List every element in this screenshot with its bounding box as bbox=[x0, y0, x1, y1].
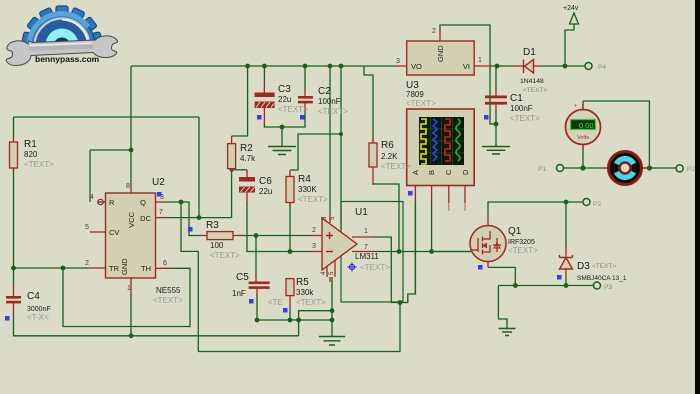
svg-text:R1: R1 bbox=[24, 139, 37, 150]
svg-text:<TEXT>: <TEXT> bbox=[360, 263, 390, 272]
svg-text:Q1: Q1 bbox=[508, 226, 522, 237]
svg-text:1N4148: 1N4148 bbox=[520, 78, 544, 85]
svg-text:0.00: 0.00 bbox=[579, 121, 594, 130]
svg-text:R6: R6 bbox=[381, 140, 394, 151]
svg-text:1: 1 bbox=[127, 285, 131, 292]
svg-text:7: 7 bbox=[364, 244, 368, 251]
svg-text:R: R bbox=[109, 198, 115, 207]
svg-text:8: 8 bbox=[126, 183, 130, 190]
svg-text:100nF: 100nF bbox=[510, 104, 533, 113]
svg-text:SMBJ40CA 13_1: SMBJ40CA 13_1 bbox=[577, 275, 627, 282]
svg-text:<TEXT>: <TEXT> bbox=[153, 296, 183, 305]
svg-text:820: 820 bbox=[24, 150, 38, 159]
svg-text:C6: C6 bbox=[259, 176, 272, 187]
svg-text:Volts: Volts bbox=[577, 135, 589, 141]
svg-text:<TEXT>: <TEXT> bbox=[381, 162, 411, 171]
svg-text:<TEXT>: <TEXT> bbox=[406, 99, 436, 108]
svg-text:<TEXT>: <TEXT> bbox=[210, 251, 240, 260]
svg-text:R3: R3 bbox=[206, 220, 219, 231]
svg-text:22u: 22u bbox=[259, 187, 272, 196]
svg-text:<TEXT>: <TEXT> bbox=[318, 107, 348, 116]
svg-text:C3: C3 bbox=[278, 84, 291, 95]
svg-text:2.2K: 2.2K bbox=[381, 152, 398, 161]
svg-text:<TEXT>: <TEXT> bbox=[298, 195, 328, 204]
svg-text:R2: R2 bbox=[240, 143, 253, 154]
svg-text:VO: VO bbox=[411, 62, 422, 71]
svg-text:7: 7 bbox=[159, 209, 163, 216]
svg-text:5: 5 bbox=[85, 224, 89, 231]
svg-text:<TEXT>: <TEXT> bbox=[24, 160, 54, 169]
svg-text:LM311: LM311 bbox=[355, 252, 379, 261]
svg-text:<TE: <TE bbox=[268, 298, 283, 307]
svg-text:C1: C1 bbox=[510, 93, 523, 104]
svg-text:bennypass.com: bennypass.com bbox=[35, 54, 100, 64]
svg-text:NE555: NE555 bbox=[156, 286, 181, 295]
svg-text:C: C bbox=[444, 169, 453, 175]
svg-text:DC: DC bbox=[140, 214, 151, 223]
svg-text:<TEXT>: <TEXT> bbox=[510, 114, 540, 123]
svg-text:U2: U2 bbox=[152, 177, 165, 188]
svg-text:P2: P2 bbox=[687, 166, 695, 173]
svg-text:D3: D3 bbox=[577, 261, 590, 272]
svg-text:P2: P2 bbox=[593, 201, 601, 208]
svg-text:B: B bbox=[427, 170, 436, 175]
svg-text:330K: 330K bbox=[298, 185, 317, 194]
svg-text:100nF: 100nF bbox=[318, 97, 341, 106]
svg-text:CV: CV bbox=[109, 228, 119, 237]
svg-text:P1: P1 bbox=[538, 166, 546, 173]
svg-text:D1: D1 bbox=[523, 47, 536, 58]
svg-text:VI: VI bbox=[463, 62, 470, 71]
svg-text:3: 3 bbox=[312, 243, 316, 250]
svg-text:R4: R4 bbox=[298, 174, 311, 185]
svg-text:<TEXT>: <TEXT> bbox=[278, 105, 308, 114]
svg-text:22u: 22u bbox=[278, 95, 291, 104]
svg-text:4: 4 bbox=[90, 194, 94, 201]
svg-text:3: 3 bbox=[396, 58, 400, 65]
svg-text:<T-X<: <T-X< bbox=[27, 313, 49, 322]
svg-text:6: 6 bbox=[163, 260, 167, 267]
svg-text:U1: U1 bbox=[355, 207, 368, 218]
svg-text:D: D bbox=[461, 169, 470, 175]
svg-text:2: 2 bbox=[85, 260, 89, 267]
svg-text:GND: GND bbox=[120, 258, 129, 275]
svg-text:+24v: +24v bbox=[563, 5, 579, 12]
svg-text:GND: GND bbox=[436, 45, 445, 62]
svg-text:Q: Q bbox=[140, 198, 146, 207]
svg-text:1: 1 bbox=[478, 57, 482, 64]
svg-text:VCC: VCC bbox=[127, 211, 136, 227]
svg-text:IRF3205: IRF3205 bbox=[508, 239, 535, 246]
svg-text:+: + bbox=[574, 103, 577, 109]
svg-text:P3: P3 bbox=[604, 284, 612, 291]
svg-text:P4: P4 bbox=[598, 64, 606, 71]
svg-text:A: A bbox=[411, 170, 420, 175]
svg-text:2: 2 bbox=[312, 227, 316, 234]
svg-text:<TEXT>: <TEXT> bbox=[508, 246, 538, 255]
svg-text:<TEXT>: <TEXT> bbox=[296, 298, 326, 307]
svg-text:100: 100 bbox=[210, 241, 224, 250]
svg-text:2: 2 bbox=[432, 28, 436, 35]
svg-text:TH: TH bbox=[141, 264, 151, 273]
svg-text:R5: R5 bbox=[296, 277, 309, 288]
svg-text:1nF: 1nF bbox=[232, 289, 246, 298]
svg-text:1: 1 bbox=[364, 228, 368, 235]
svg-text:C4: C4 bbox=[27, 291, 40, 302]
svg-text:TR: TR bbox=[109, 264, 120, 273]
svg-text:<TEXT>: <TEXT> bbox=[592, 263, 616, 270]
svg-text:330k: 330k bbox=[296, 288, 314, 297]
svg-text:3000nF: 3000nF bbox=[27, 306, 51, 313]
svg-text:C5: C5 bbox=[236, 272, 249, 283]
svg-text:7809: 7809 bbox=[406, 90, 424, 99]
svg-text:C2: C2 bbox=[318, 86, 331, 97]
svg-text:4.7k: 4.7k bbox=[240, 154, 256, 163]
svg-text:<TEXT>: <TEXT> bbox=[523, 87, 547, 94]
